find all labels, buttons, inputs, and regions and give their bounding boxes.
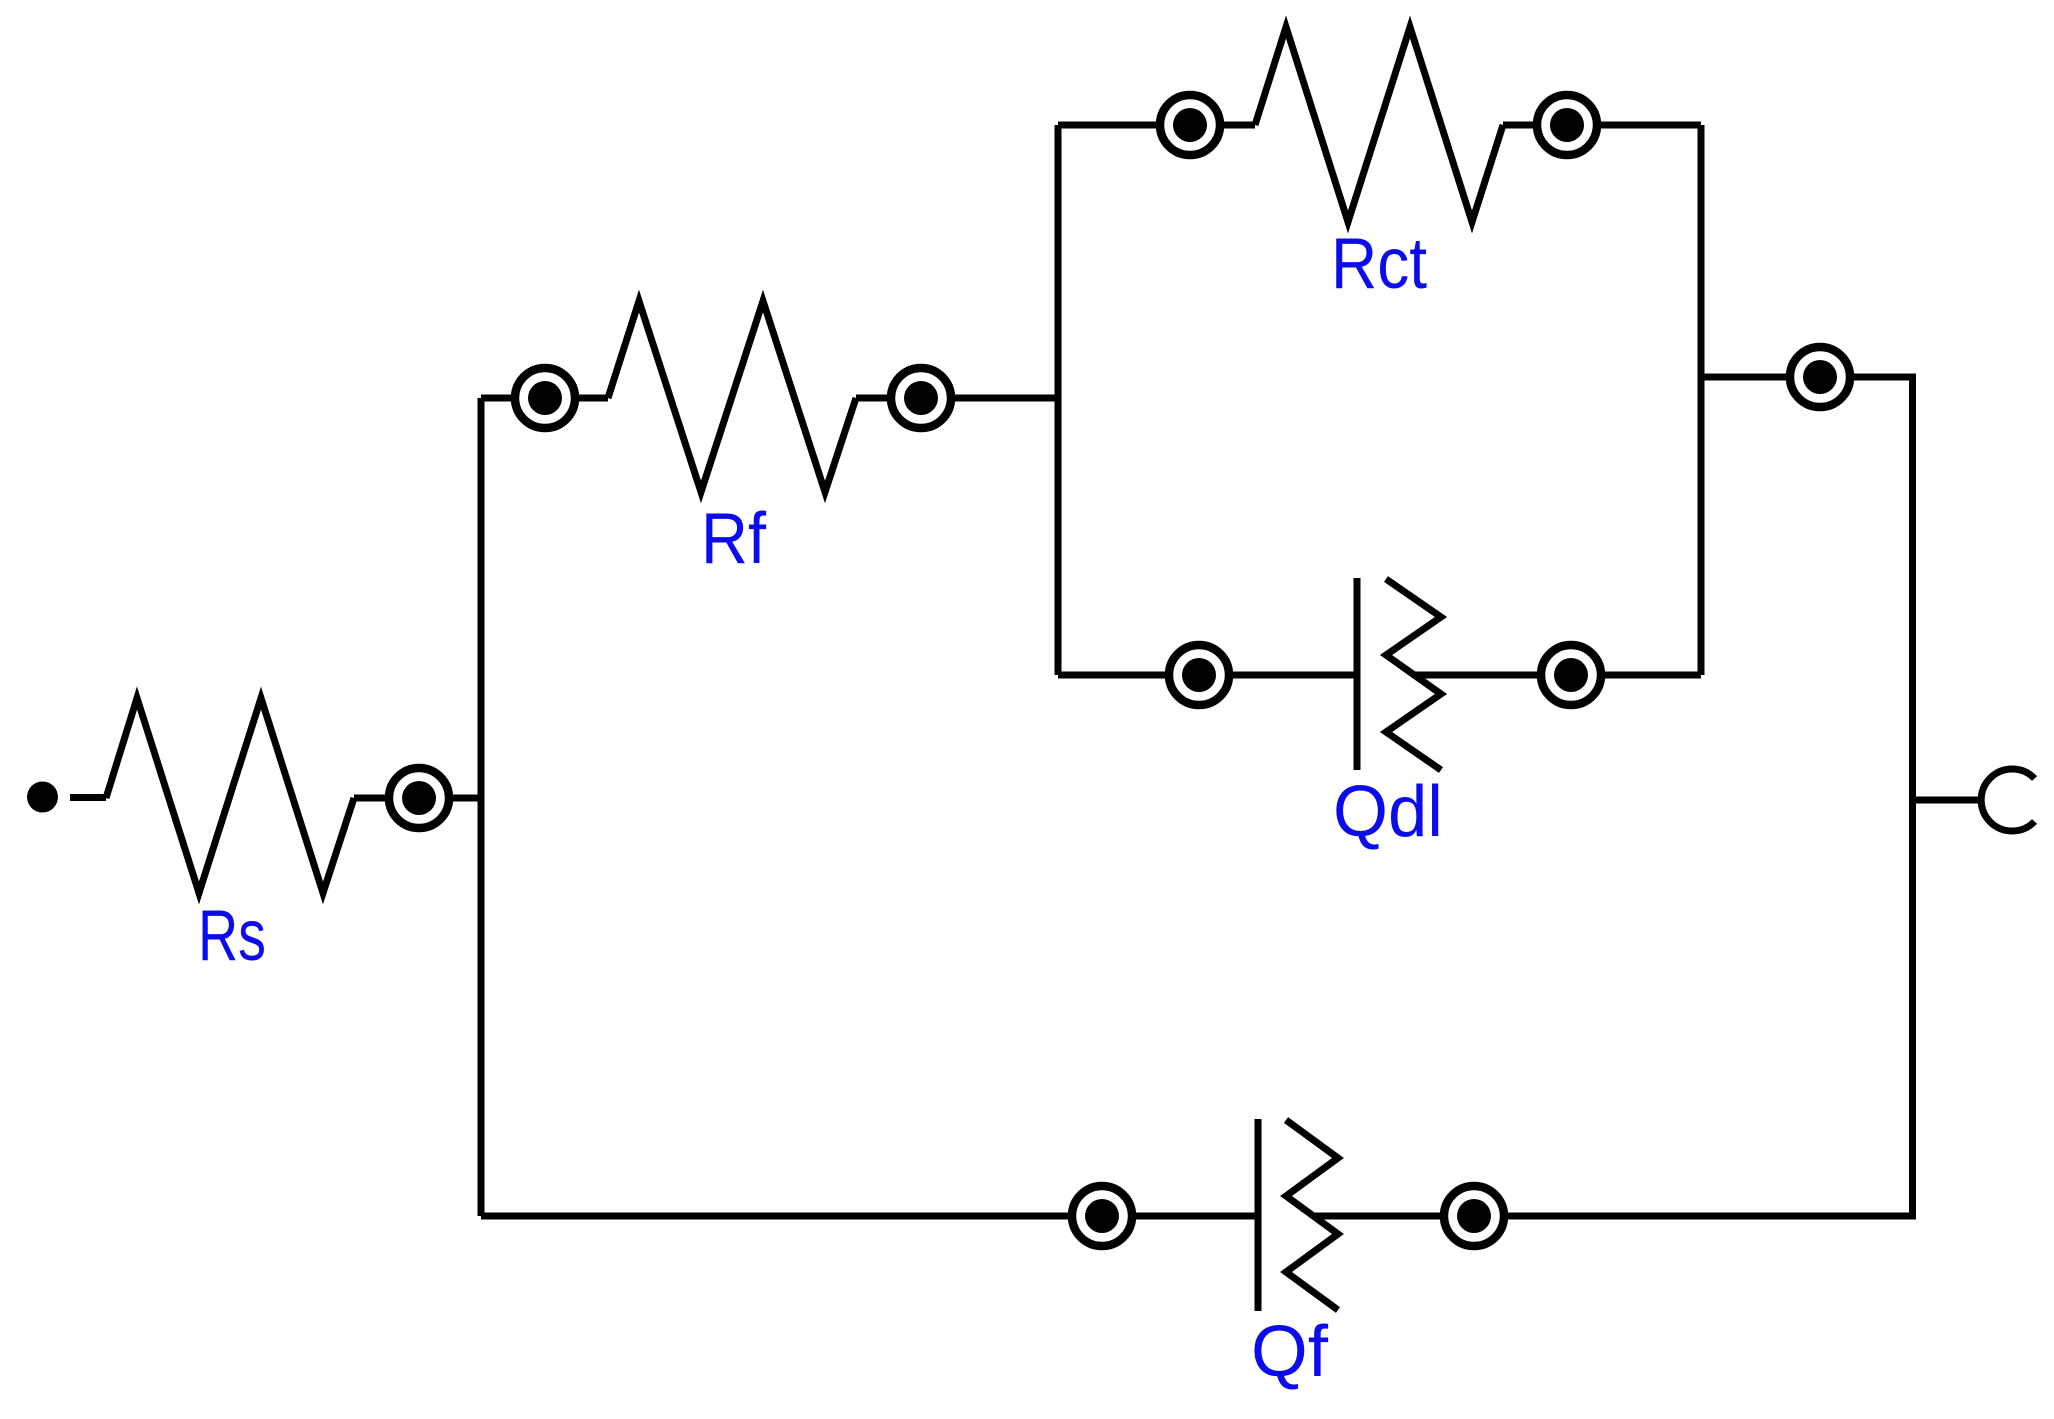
node terminal Rf left	[515, 368, 575, 428]
wire	[1850, 374, 1916, 381]
wire parallel box right vertical	[1698, 125, 1705, 675]
wire Rf to parallel box	[951, 395, 1058, 402]
wire to Qdl terminal	[1058, 672, 1169, 679]
resistor Rs	[106, 698, 354, 893]
output terminal open circle	[1981, 769, 2034, 831]
wire	[575, 395, 608, 402]
svg-text:Rs: Rs	[198, 896, 266, 976]
wire	[1414, 672, 1541, 679]
CPE Qf	[1258, 1119, 1338, 1311]
wire	[1229, 672, 1357, 679]
svg-text:Rf: Rf	[701, 499, 767, 579]
wire to Rct terminal	[1058, 122, 1160, 129]
wire	[1312, 1213, 1444, 1220]
node terminal Rf right	[891, 368, 951, 428]
svg-text:Qdl: Qdl	[1333, 772, 1443, 852]
wire	[1220, 122, 1255, 129]
resistor Rct	[1255, 27, 1503, 222]
wire parallel box left vertical	[1055, 125, 1062, 675]
wire Rs terminal to trunk	[354, 795, 389, 802]
node terminal Qdl right	[1541, 645, 1601, 705]
wire	[856, 395, 891, 402]
wire bottom branch left	[481, 1213, 1072, 1220]
wire	[1132, 1213, 1258, 1220]
wire input to Rs	[70, 794, 106, 801]
svg-text:Rct: Rct	[1331, 224, 1427, 304]
node terminal Rct right	[1537, 95, 1597, 155]
wire right vertical	[1909, 377, 1916, 1216]
wire trunk to Rf terminal	[481, 395, 515, 402]
node terminal output branch	[1790, 347, 1850, 407]
wire output stub	[1913, 797, 1983, 804]
node terminal Qf right	[1444, 1186, 1504, 1246]
wire bottom branch right	[1504, 1213, 1916, 1220]
CPE Qdl	[1357, 578, 1441, 770]
wire	[1503, 122, 1537, 129]
wire Qdl to box right vertical	[1601, 672, 1701, 679]
wire left trunk vertical	[478, 398, 485, 1216]
node terminal Qdl left	[1169, 645, 1229, 705]
resistor Rf	[608, 301, 856, 492]
node terminal Qf left	[1072, 1186, 1132, 1246]
node terminal after Rs	[389, 768, 449, 828]
svg-text:Qf: Qf	[1251, 1312, 1329, 1392]
input terminal dot	[27, 782, 58, 813]
node terminal Rct left	[1160, 95, 1220, 155]
wire junction to output terminal	[1701, 374, 1790, 381]
wire Rct to box right vertical	[1597, 122, 1701, 129]
